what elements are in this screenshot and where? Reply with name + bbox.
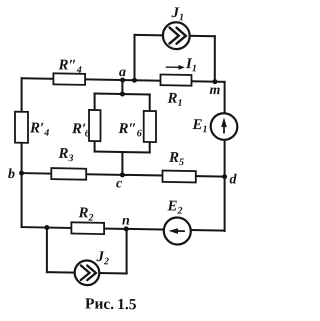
wire b c d row bbox=[22, 173, 225, 177]
emf source E2 bbox=[164, 217, 191, 244]
resistor R5 bbox=[163, 171, 196, 183]
arrow I1 bbox=[166, 65, 185, 70]
current source J2 bbox=[75, 260, 100, 285]
wire node c stub bbox=[121, 152, 123, 175]
wire J1 left leg bbox=[134, 35, 136, 80]
node d dot bbox=[222, 174, 227, 179]
svg-text:R′4: R′4 bbox=[29, 120, 49, 138]
svg-text:J2: J2 bbox=[96, 249, 109, 267]
svg-text:Рис.1.5: Рис.1.5 bbox=[85, 295, 137, 313]
junction dot parallel top rail bbox=[120, 91, 125, 96]
svg-text:E2: E2 bbox=[167, 198, 183, 216]
wire R'6 branch bbox=[94, 94, 96, 152]
wire J1 right leg bbox=[214, 36, 216, 81]
svg-text:R2: R2 bbox=[78, 205, 94, 223]
wire bottom row b-corner to E2 bbox=[22, 227, 225, 231]
svg-text:b: b bbox=[8, 167, 15, 182]
svg-text:E1: E1 bbox=[192, 117, 208, 135]
svg-text:R5: R5 bbox=[168, 150, 184, 168]
wire node a stub bbox=[121, 80, 123, 94]
wire top rail a to m bbox=[22, 78, 225, 82]
svg-text:R3: R3 bbox=[58, 146, 74, 164]
current source J1 bbox=[163, 22, 190, 49]
svg-text:I1: I1 bbox=[185, 56, 197, 74]
svg-text:m: m bbox=[210, 83, 221, 98]
wire R''6 branch bbox=[149, 95, 151, 153]
wire J2 bottom bbox=[47, 272, 127, 273]
resistor R2 bbox=[71, 222, 104, 234]
svg-text:c: c bbox=[116, 176, 123, 191]
wire J2 left leg bbox=[46, 228, 48, 273]
resistor R'4 bbox=[15, 112, 28, 143]
wire left rail through R'4 bbox=[21, 78, 23, 227]
wire parallel section bottom rail bbox=[95, 151, 150, 154]
resistor R3 bbox=[51, 168, 86, 180]
node a junction dot right bbox=[132, 78, 137, 83]
node n dot bbox=[124, 226, 129, 231]
emf source E1 bbox=[211, 113, 238, 140]
resistor R''4 bbox=[53, 73, 85, 85]
wire parallel section top rail bbox=[95, 93, 150, 96]
svg-text:R″6: R″6 bbox=[118, 121, 142, 139]
node b dot bbox=[19, 171, 24, 176]
wire J2 right leg bbox=[126, 229, 128, 274]
svg-text:J1: J1 bbox=[171, 5, 184, 23]
svg-text:R′6: R′6 bbox=[71, 121, 90, 139]
svg-text:d: d bbox=[230, 172, 238, 187]
svg-text:R1: R1 bbox=[167, 91, 183, 109]
svg-text:a: a bbox=[119, 65, 126, 80]
node m dot bbox=[212, 79, 217, 84]
svg-text:R″4: R″4 bbox=[58, 57, 82, 75]
node a junction dot left bbox=[120, 78, 125, 83]
svg-text:n: n bbox=[122, 214, 130, 229]
resistor R1 bbox=[161, 75, 192, 86]
node c dot bbox=[120, 172, 125, 177]
wire right rail m to E2 row bbox=[224, 82, 226, 231]
resistor R''6 bbox=[144, 111, 156, 142]
junction dot R2 left bbox=[44, 225, 49, 230]
wire J1 top bbox=[135, 35, 215, 36]
resistor R'6 bbox=[89, 110, 101, 141]
